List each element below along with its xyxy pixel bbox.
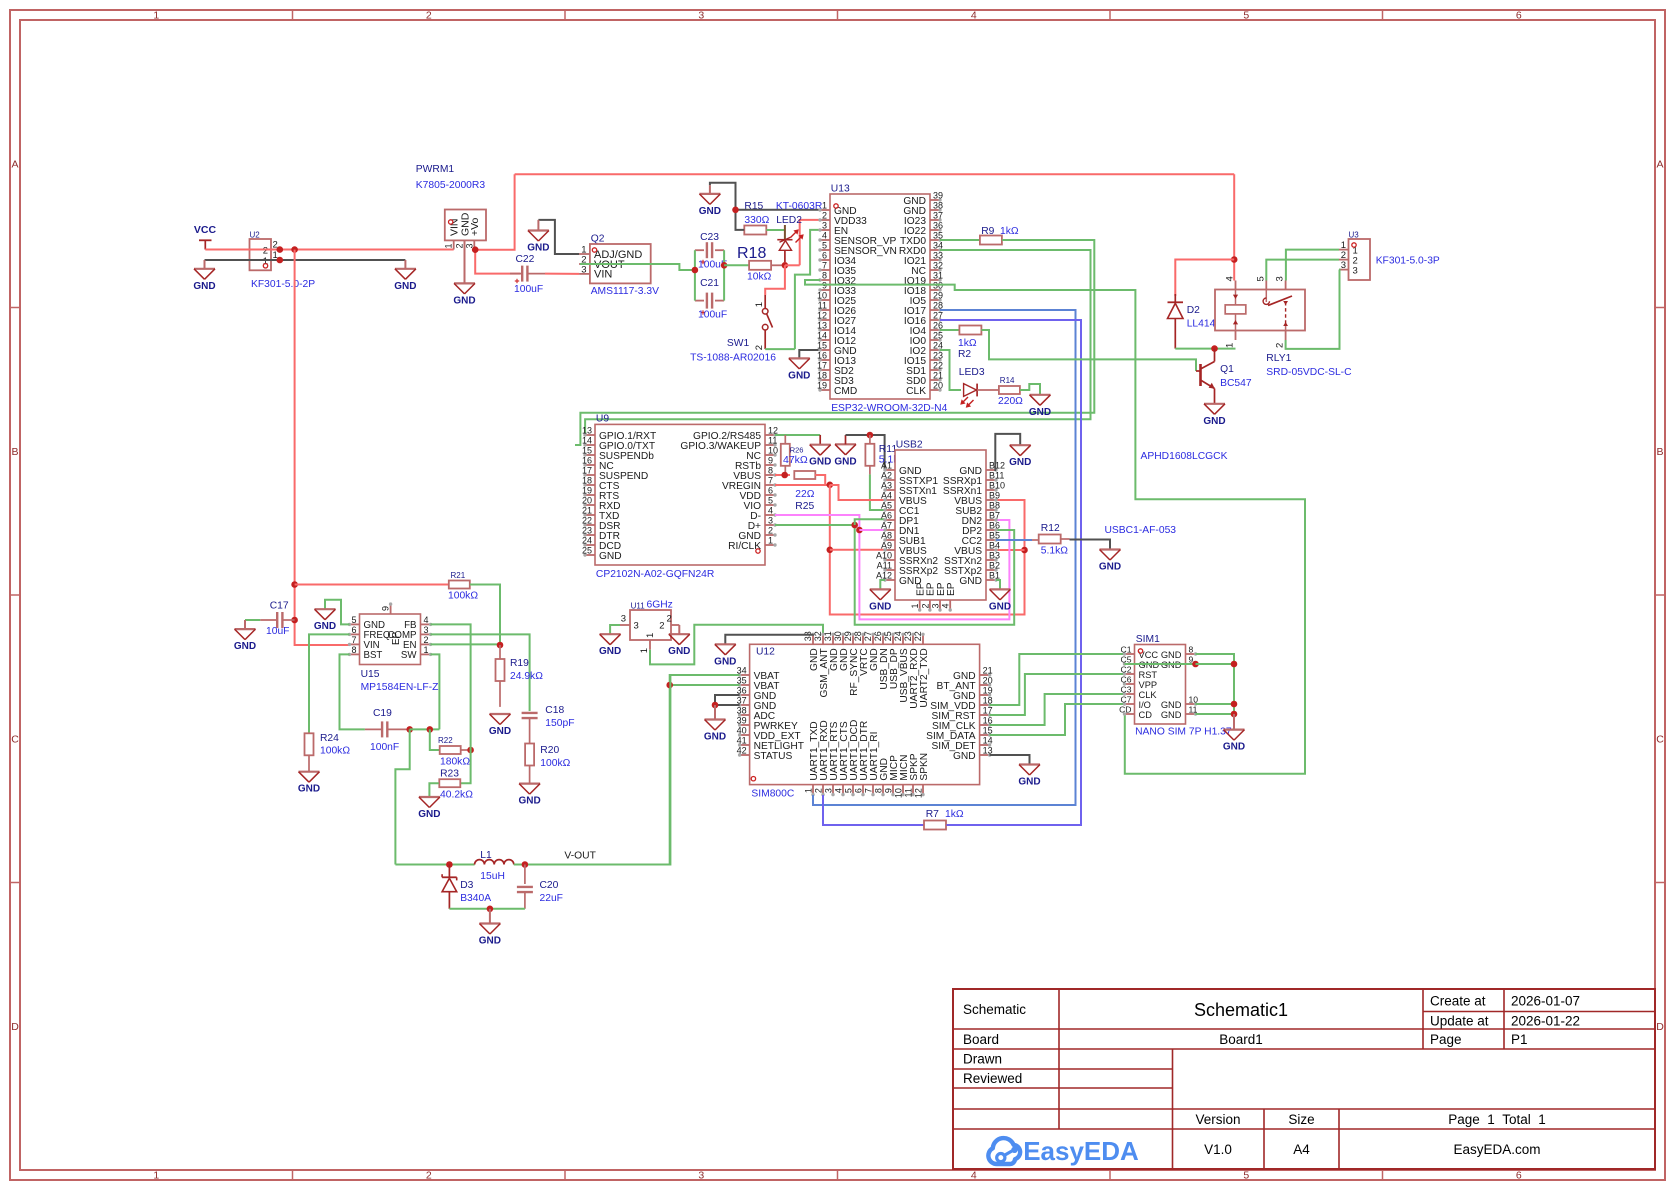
svg-text:8: 8 [822,271,827,281]
svg-text:B8: B8 [989,501,1000,511]
svg-text:R25: R25 [795,501,814,512]
resistor R9 1k on TXD0 [940,239,980,241]
svg-text:28: 28 [853,631,863,641]
svg-text:4: 4 [1225,276,1236,281]
svg-text:1: 1 [910,604,920,609]
svg-text:Board1: Board1 [1219,1032,1263,1047]
svg-text:C20: C20 [540,880,559,891]
junction D3 [446,861,453,868]
svg-text:BC547: BC547 [1220,378,1252,389]
svg-text:+Vo: +Vo [469,217,481,236]
svg-text:B11: B11 [989,471,1004,481]
junction EN/R19/R21 [497,642,504,649]
svg-text:40: 40 [737,726,747,736]
svg-text:9: 9 [768,456,773,466]
svg-text:U3: U3 [1349,231,1360,240]
svg-text:1: 1 [804,788,814,793]
ground under VCC [204,260,206,269]
junction cap rail right [721,262,728,269]
svg-text:1: 1 [153,1170,159,1182]
wire SIM_CLK to SIM1 C3 (green) [990,694,1125,725]
svg-text:B4: B4 [989,541,1000,551]
junction C17 tap [291,617,298,624]
wire D2 to Q1/relay pin1 (green) [1175,348,1235,350]
junction cap rail left [692,267,699,274]
svg-text:V-OUT: V-OUT [564,851,596,862]
svg-text:U2: U2 [250,231,261,240]
ground mid (R11 net) [835,443,856,445]
junction VCC rail drop [291,246,298,253]
svg-text:C1: C1 [1121,645,1132,655]
svg-text:D: D [11,1021,19,1033]
svg-text:EasyEDA.com: EasyEDA.com [1453,1142,1540,1157]
svg-text:20: 20 [582,496,592,506]
svg-text:20: 20 [983,676,993,686]
svg-text:3: 3 [581,264,586,275]
wire TXD0 to CP2102 GPIO.0/TXT (green) [575,240,1094,445]
svg-text:180kΩ: 180kΩ [440,757,470,768]
svg-text:GND: GND [668,646,690,657]
svg-text:33: 33 [803,631,813,641]
svg-text:22Ω: 22Ω [795,489,814,500]
svg-text:Create at: Create at [1430,994,1486,1009]
svg-text:GND: GND [1161,650,1182,660]
wire to USB2 A7 DN1 (magenta) [859,529,885,531]
svg-text:2: 2 [263,246,268,257]
svg-text:7: 7 [351,635,356,645]
wire PWRM1 +Vo to top rail and C22 (red) [475,174,514,250]
wire V-OUT drop (green) [395,729,409,864]
svg-text:B6: B6 [989,521,1000,531]
wire U9 pin12 to R26 top (green) [775,434,820,436]
wire SW riser (green) [431,654,440,729]
svg-text:A5: A5 [881,501,892,511]
svg-text:5: 5 [351,615,356,625]
svg-text:SW: SW [401,650,417,661]
junction VBUS A9 [827,547,834,554]
svg-text:A1: A1 [881,461,892,471]
wire to USB2 A9 VBUS (red) [830,549,885,551]
svg-text:3: 3 [1353,265,1358,276]
svg-text:R20: R20 [540,745,559,756]
svg-text:1: 1 [153,10,159,22]
svg-text:22uF: 22uF [540,893,563,904]
svg-text:R7: R7 [926,809,939,820]
wire U15 pin5 gnd (green) [325,600,350,625]
wire IO16 pin27 blue [940,320,1081,825]
svg-text:2026-01-07: 2026-01-07 [1511,994,1580,1009]
wire top rail down to relay pin4 (red) [1233,174,1235,280]
svg-text:6: 6 [854,788,864,793]
svg-text:C17: C17 [270,601,289,612]
svg-text:7: 7 [822,261,827,271]
ground above R15 [709,185,711,194]
svg-text:2: 2 [822,211,827,221]
wire U9 D+ to USB D+ net (green) [775,525,1014,625]
svg-text:VIN: VIN [594,269,612,281]
svg-text:A10: A10 [876,551,892,561]
wire cap rail to R18 (green) [724,264,750,266]
svg-text:220Ω: 220Ω [998,396,1023,407]
svg-text:GND: GND [1223,742,1245,753]
svg-text:B340A: B340A [460,893,491,904]
svg-text:5: 5 [1243,1170,1249,1182]
svg-text:Update at: Update at [1430,1014,1489,1029]
svg-text:5: 5 [768,496,773,506]
svg-text:GND: GND [527,243,549,254]
svg-text:38: 38 [737,706,747,716]
svg-text:B2: B2 [989,561,1000,571]
svg-text:SIM800C: SIM800C [751,789,794,800]
svg-text:R23: R23 [440,769,459,780]
svg-text:A: A [11,158,18,170]
svg-text:100kΩ: 100kΩ [540,758,570,769]
wire SIM1 C5 across to pin9 (green) [1125,663,1196,665]
svg-text:BST: BST [364,650,383,661]
svg-text:1: 1 [1225,343,1236,348]
junction D- to A7 DN1 [856,527,863,534]
svg-text:3: 3 [698,1170,704,1182]
svg-text:7: 7 [864,788,874,793]
svg-text:1: 1 [754,302,765,307]
resistor R14 220ohm [999,386,1020,394]
junction R11 top [867,432,874,439]
svg-text:GND: GND [1009,457,1031,468]
svg-text:12: 12 [817,311,827,321]
svg-text:SPKN: SPKN [919,753,930,781]
svg-text:A8: A8 [881,531,892,541]
wire LED2 to junction [784,251,786,263]
wire Q2 VOUT over box to cap rail (green) [580,264,695,270]
svg-text:41: 41 [737,736,747,746]
svg-text:Schematic1: Schematic1 [1194,1000,1288,1020]
wire R18 to LED2 junction [771,264,785,266]
svg-text:10uF: 10uF [266,626,289,637]
svg-text:NANO SIM 7P H1.37: NANO SIM 7P H1.37 [1135,727,1232,738]
svg-text:24: 24 [893,631,903,641]
svg-text:EP: EP [946,582,957,596]
svg-text:1kΩ: 1kΩ [945,809,964,820]
svg-text:GND: GND [193,281,215,292]
svg-text:100uF: 100uF [514,284,543,295]
svg-text:Reviewed: Reviewed [963,1071,1022,1086]
junction FB riser at R22 [467,747,474,754]
junction C19 right / V-OUT drop [406,726,413,733]
wire SIM_VDD to SIM1 C1 (green) [990,654,1125,705]
wire SW1 pin2 to EN riser (green) [765,348,795,350]
svg-text:2: 2 [659,621,664,632]
svg-text:GND: GND [418,809,440,820]
ground right of R12 [1100,548,1121,550]
svg-text:8: 8 [351,645,356,655]
wire U12 pin13 gnd (dark) [990,755,1030,765]
svg-text:AMS1117-3.3V: AMS1117-3.3V [591,286,659,297]
ground right of SW1 [789,357,810,359]
ground right of U11 [669,633,690,635]
EasyEDA logo [988,1138,1020,1164]
svg-text:GND: GND [518,796,540,807]
svg-text:4: 4 [424,615,429,625]
svg-text:39: 39 [933,191,943,201]
svg-text:3: 3 [424,625,429,635]
svg-text:5.1kΩ: 5.1kΩ [1041,546,1068,557]
svg-text:29: 29 [933,291,943,301]
svg-text:U13: U13 [831,184,850,195]
junction VBUS B4 [1021,547,1028,554]
svg-text:GND: GND [479,936,501,947]
wire to D2 (red) [1175,260,1234,297]
svg-text:5: 5 [822,241,827,251]
svg-text:6GHz: 6GHz [647,599,673,610]
svg-text:1: 1 [424,645,429,655]
svg-text:100kΩ: 100kΩ [448,591,478,602]
wire R2 to Q1 base (green) [981,330,1196,371]
svg-text:Q2: Q2 [591,234,605,245]
svg-text:GND: GND [599,551,622,562]
wire U12 gnd pins 36/37 (dark) [715,695,740,705]
svg-text:GND: GND [394,281,416,292]
svg-text:TS-1088-AR02016: TS-1088-AR02016 [690,353,776,364]
junction gnd/R15 [732,207,739,214]
wire U11 pin1 to U12 GSM_ANT (green) [650,625,823,665]
svg-text:SRD-05VDC-SL-C: SRD-05VDC-SL-C [1266,367,1352,378]
ground below PWRM1 pin2 [464,240,466,283]
svg-text:GND: GND [599,646,621,657]
svg-text:36: 36 [933,221,943,231]
svg-text:14: 14 [817,331,827,341]
svg-text:D: D [1656,1021,1664,1033]
svg-text:15: 15 [817,341,827,351]
svg-text:2: 2 [426,1170,432,1182]
svg-text:47kΩ: 47kΩ [783,454,808,466]
wire R12 to gnd (dark) [1070,540,1111,550]
svg-text:A4: A4 [1293,1142,1310,1157]
svg-text:17: 17 [582,466,592,476]
wire SIM_RST to SIM1 C2 (green) [990,674,1125,715]
svg-text:14: 14 [983,736,993,746]
svg-text:GND: GND [809,457,831,468]
svg-text:MP1584EN-LF-Z: MP1584EN-LF-Z [361,682,439,693]
svg-text:32: 32 [813,631,823,641]
svg-text:B7: B7 [989,511,1000,521]
svg-text:15: 15 [582,446,592,456]
svg-text:SIM1: SIM1 [1136,634,1160,645]
svg-text:16: 16 [582,456,592,466]
relay coil [1225,305,1246,314]
VBUS net loop (red) [830,485,1025,615]
junction R26 bottom [781,472,788,479]
svg-text:13: 13 [582,426,592,436]
svg-text:2: 2 [768,526,773,536]
svg-text:2: 2 [455,244,465,249]
svg-text:2: 2 [754,345,765,350]
wire U3 pin2 to relay pin5 (green) [1266,260,1339,281]
svg-text:9: 9 [884,788,894,793]
junction gnd pins [712,702,719,709]
svg-text:GND: GND [1161,700,1182,710]
svg-text:19: 19 [817,381,827,391]
svg-text:19: 19 [983,686,993,696]
svg-text:13: 13 [817,321,827,331]
svg-text:STATUS: STATUS [754,751,793,762]
svg-text:KF301-5.0-2P: KF301-5.0-2P [251,279,315,290]
svg-text:20: 20 [933,381,943,391]
svg-text:3: 3 [824,788,834,793]
svg-text:U11: U11 [631,601,646,610]
svg-text:GND: GND [489,726,511,737]
ground left of U12 top [715,643,736,645]
wire R11 bottom to USB2 CC1 (green) [869,465,871,474]
junction D+ to A6 DP1 [851,522,858,529]
ground above U15 [315,608,336,610]
diode D3 B340A [448,865,450,878]
svg-text:1kΩ: 1kΩ [1000,226,1019,237]
wire U12 pin33 gnd (dark) [725,634,813,644]
svg-text:Q1: Q1 [1220,364,1234,375]
svg-text:25: 25 [933,331,943,341]
junction VBAT [666,682,673,689]
svg-text:R14: R14 [1000,376,1015,385]
svg-text:8: 8 [1189,645,1194,655]
EN riser (green) [795,230,820,349]
svg-text:R12: R12 [1041,523,1060,534]
svg-text:5: 5 [844,788,854,793]
svg-text:6: 6 [1516,1170,1522,1182]
wire pin10 to rail [1196,703,1235,705]
svg-text:9: 9 [381,606,391,611]
junction VREGIN/R25 [827,482,834,489]
top red rail to relay [515,173,1235,175]
svg-text:R21: R21 [451,571,466,580]
svg-text:3: 3 [634,621,639,632]
svg-text:4: 4 [971,1170,977,1182]
svg-text:R2: R2 [958,349,971,360]
svg-text:31: 31 [823,631,833,641]
junction pin9 [1192,661,1199,668]
svg-text:12: 12 [914,788,924,798]
svg-text:B10: B10 [989,481,1005,491]
svg-text:EasyEDA: EasyEDA [1023,1136,1139,1166]
junction PWRM1 pin3 [472,246,479,253]
wire R22 from junction (green) [430,729,439,750]
junction at U2 pin1 [277,257,284,264]
svg-text:25: 25 [883,631,893,641]
svg-text:2026-01-22: 2026-01-22 [1511,1014,1580,1029]
wire UART1_TXD blue down [813,795,1076,805]
svg-text:3: 3 [698,10,704,22]
ground at pin12 wire [819,435,821,445]
svg-text:RLY1: RLY1 [1266,353,1291,364]
svg-text:42: 42 [737,746,747,756]
resistor R11 5.1k [869,435,871,444]
wire C19 junction segment (green) [410,728,440,730]
ground below R20 [519,782,540,784]
svg-text:GND: GND [788,370,810,381]
resistor R22 180k [440,746,461,754]
svg-text:11: 11 [768,436,777,446]
svg-text:C3: C3 [1121,685,1132,695]
svg-text:B: B [1656,446,1663,458]
wire U13 pin15 GND (dark) [799,350,820,358]
svg-text:10: 10 [894,788,904,798]
wire U15 FREQ to R24 (green) [309,634,350,733]
svg-text:GND: GND [699,206,721,217]
svg-text:25: 25 [582,546,592,556]
svg-text:I/O: I/O [1139,700,1151,710]
svg-text:22: 22 [913,631,923,641]
svg-text:2: 2 [814,788,824,793]
svg-text:32: 32 [933,261,943,271]
svg-text:D3: D3 [460,880,473,891]
wire junction down to SW1 pin1 (red) [765,265,785,295]
svg-text:22: 22 [582,516,592,526]
svg-text:6: 6 [1516,10,1522,22]
ground above Q2 ADJ [538,220,579,254]
svg-text:150pF: 150pF [545,718,574,729]
svg-text:C6: C6 [1121,675,1132,685]
svg-text:C: C [11,733,19,745]
wire L1 to V-OUT label (green) [514,675,671,865]
wire R21 to EN node (green) [470,585,500,646]
svg-text:10kΩ: 10kΩ [747,272,772,283]
svg-text:2: 2 [426,10,432,22]
svg-text:CP2102N-A02-GQFN24R: CP2102N-A02-GQFN24R [596,569,714,580]
svg-text:24: 24 [582,536,592,546]
ground below SIM1 rail [1233,714,1235,730]
wire IO17 pin28 blue [813,310,1076,805]
svg-text:Page 1 Total 1: Page 1 Total 1 [1448,1112,1546,1127]
svg-text:VCC: VCC [194,224,217,236]
ground below USB2 B1 [996,580,1000,589]
relay switch contacts [1265,290,1267,303]
wire U11 pin2 to gnd [678,625,680,634]
svg-text:23: 23 [903,631,913,641]
transistor Q1 BC547 [1199,364,1202,386]
svg-text:A9: A9 [881,541,892,551]
wire +Vo down to C22 (red) [475,250,520,274]
svg-text:RST: RST [1139,670,1158,680]
svg-text:330Ω: 330Ω [744,215,769,226]
svg-text:R24: R24 [320,733,339,744]
svg-text:CD: CD [1119,705,1131,715]
junction Q1 collector [1211,345,1218,352]
IC U15 MP1584EN-LF-Z [360,614,421,665]
svg-text:R22: R22 [438,736,453,745]
svg-text:CLK: CLK [906,386,926,397]
resistor R21 100k [295,584,449,586]
svg-text:4: 4 [941,604,951,609]
wire ground rail from VCC GND through U2 pin1 (dark) [205,259,406,261]
svg-text:2: 2 [920,604,930,609]
svg-text:VPP: VPP [1139,680,1158,690]
wire junction to VDD33 pin2 (red) [785,264,800,266]
svg-text:CLK: CLK [1139,690,1158,700]
ground below U12 pins36/37 [714,705,716,720]
svg-text:C21: C21 [700,278,719,289]
svg-text:GND: GND [714,656,736,667]
junction R18/LED2/VDD33 [782,262,789,269]
svg-text:CD: CD [1139,710,1153,720]
svg-text:2: 2 [424,635,429,645]
svg-text:LED3: LED3 [959,367,985,378]
svg-text:UART2_TXD: UART2_TXD [919,648,930,707]
svg-text:C19: C19 [373,708,392,719]
svg-text:23: 23 [582,526,592,536]
ground below R24 [299,771,320,773]
svg-text:4: 4 [834,788,844,793]
svg-text:A6: A6 [881,511,892,521]
resistor R12 5.1k on CC2 [996,539,1032,541]
